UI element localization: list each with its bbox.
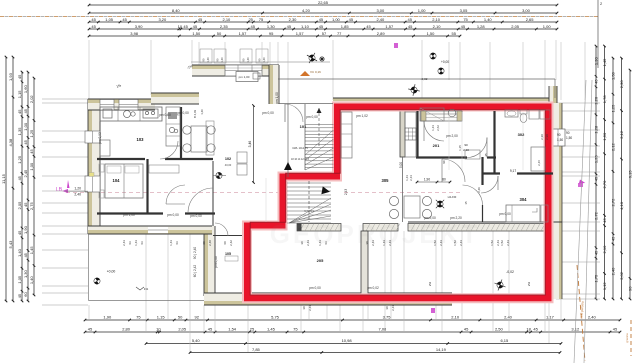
survey symbol 5 (compass room 305) [432,196,449,213]
svg-text:pm 0,93: pm 0,93 [98,132,102,144]
dimension line left 1 (11,15 overall) [5,57,7,301]
closet room 304 [541,205,548,222]
svg-text:pm 0,00: pm 0,00 [177,111,189,115]
svg-text:2,80: 2,80 [122,327,131,332]
svg-text:304: 304 [520,197,528,202]
svg-text:2,43: 2,43 [122,240,126,246]
svg-text:90 | 2,40: 90 | 2,40 [193,247,197,260]
svg-text:8,40: 8,40 [172,8,181,13]
svg-text:45: 45 [88,327,93,332]
svg-text:3,90: 3,90 [135,24,144,29]
svg-text:1,00: 1,00 [23,122,28,131]
svg-text:1,58: 1,58 [611,71,616,80]
svg-text:2,43: 2,43 [409,175,413,181]
interior wall room 302 west [493,111,495,173]
svg-text:1,60: 1,60 [23,85,28,94]
svg-text:CWL 10x1,75: CWL 10x1,75 [292,146,308,150]
svg-text:1,45: 1,45 [267,327,276,332]
svg-text:pm 0,00: pm 0,00 [167,213,179,217]
exterior wall left wing south [88,226,212,234]
interior wall bath 201 south [416,156,467,158]
svg-text:1,90: 1,90 [424,178,430,182]
svg-text:201: 201 [433,143,440,148]
interior wall corridor east [481,157,483,185]
svg-text:1,40: 1,40 [246,57,250,63]
svg-text:1,40: 1,40 [206,57,210,63]
svg-text:2,42: 2,42 [229,240,233,246]
svg-text:2%: 2% [428,282,432,287]
svg-text:1,85: 1,85 [341,24,350,29]
svg-text:40,00: 40,00 [225,163,232,167]
toilet bath 302 [520,110,527,114]
svg-text:45: 45 [461,24,466,29]
kitchen counter room 305 [405,112,416,157]
svg-text:pm 0,00: pm 0,00 [214,256,218,268]
window west wall lower [85,176,100,192]
svg-text:1,40: 1,40 [262,57,266,63]
svg-text:45: 45 [287,24,292,29]
svg-text:pm 0,00: pm 0,00 [424,216,436,220]
svg-text:45: 45 [349,17,354,22]
svg-text:LB: LB [56,187,63,193]
svg-text:1,43: 1,43 [382,240,386,246]
survey symbol 2 [429,52,438,61]
svg-text:-0,02: -0,02 [421,77,428,81]
svg-text:9 7 5 3 1: 9 7 5 3 1 [304,210,314,213]
svg-text:1,90: 1,90 [23,225,28,234]
svg-text:2,65: 2,65 [526,17,535,22]
svg-text:90: 90 [628,286,633,291]
svg-text:2,02: 2,02 [619,271,624,280]
svg-text:3,98: 3,98 [130,31,139,36]
svg-text:45: 45 [594,250,599,255]
svg-text:2,43: 2,43 [388,240,392,246]
svg-text:1,15: 1,15 [157,315,166,320]
mid wall between room 205 and terrace [361,231,368,294]
dashed section line middle B-B [66,192,285,194]
svg-text:1,17: 1,17 [546,315,555,320]
svg-text:1,52: 1,52 [490,240,494,246]
svg-text:2%: 2% [527,282,531,287]
dimension line top 2 [89,12,557,14]
dimension line right 5 [629,70,631,299]
svg-text:+0,00: +0,00 [441,60,449,64]
svg-text:1,05: 1,05 [17,275,22,284]
bathtub room 302 [531,147,545,171]
extension lines from building to top dimensions [88,40,90,100]
svg-text:302: 302 [518,132,525,137]
shaft boxes beside stair [237,152,247,163]
svg-text:1%: 1% [144,287,149,291]
staircase lower flight [287,182,331,184]
svg-text:10: 10 [178,24,183,29]
windows in north wall A [100,100,114,111]
survey symbol 6 (terrace) [492,277,507,292]
svg-text:1,52: 1,52 [453,240,457,246]
dimension line left 3 [21,72,23,301]
exterior wall south band [204,293,452,305]
svg-text:60 | 2,42: 60 | 2,42 [193,265,197,278]
svg-text:3,75: 3,75 [383,315,392,320]
door arc hall to corridor [188,188,213,213]
bed room 104 [105,164,143,198]
svg-text:45: 45 [533,327,538,332]
svg-text:22,65: 22,65 [318,0,329,5]
svg-text:1,57: 1,57 [385,24,394,29]
svg-text:2,62: 2,62 [436,125,440,131]
svg-text:45: 45 [17,175,22,180]
svg-text:2,10: 2,10 [451,315,460,320]
svg-text:2,40: 2,40 [74,193,81,197]
svg-text:2,05: 2,05 [511,24,520,29]
svg-text:104: 104 [113,178,121,183]
svg-text:3,05: 3,05 [460,8,469,13]
svg-text:50: 50 [217,31,222,36]
dimension line bottom 2 [85,331,620,333]
svg-text:B 2,49: B 2,49 [193,110,197,119]
svg-text:205: 205 [317,258,324,263]
svg-text:60: 60 [23,292,28,297]
exterior wall north segment C [192,65,279,76]
svg-text:1,50: 1,50 [602,132,607,141]
washbasin bath 201 [448,109,456,117]
interior dimension room 305 [417,181,450,183]
svg-text:1,25: 1,25 [594,155,599,164]
svg-text:1,45: 1,45 [29,246,34,255]
section marker bottom (magenta) [431,308,435,313]
svg-text:75: 75 [136,315,141,320]
storage shelf 105 [225,256,238,261]
svg-text:10,98: 10,98 [342,338,353,343]
svg-text:45: 45 [23,252,28,257]
washbasin bath 302 [505,110,518,117]
svg-text:5,75: 5,75 [271,315,280,320]
svg-text:25: 25 [248,17,253,22]
svg-text:1,43: 1,43 [134,240,138,246]
svg-text:45: 45 [208,327,213,332]
svg-text:1,40: 1,40 [17,248,22,257]
svg-text:-0,02: -0,02 [506,270,514,274]
svg-text:2,72: 2,72 [594,211,599,220]
svg-text:63: 63 [324,241,328,245]
svg-text:2,10: 2,10 [602,245,607,254]
svg-text:1,90: 1,90 [103,315,112,320]
window west wall upper [85,131,100,143]
svg-text:1,30: 1,30 [23,269,28,278]
svg-text:1,52: 1,52 [433,240,437,246]
svg-text:57: 57 [322,31,327,36]
svg-text:pm 0,00: pm 0,00 [309,286,321,290]
svg-text:2,43: 2,43 [391,305,395,311]
svg-text:1,00: 1,00 [418,8,427,13]
cupboard room 103 west wall [100,140,110,156]
svg-text:1,40: 1,40 [220,57,224,63]
svg-text:45: 45 [23,108,28,113]
dining chairs room 103 [183,126,191,134]
dashed orange line bottom right [577,265,585,361]
extension lines from building to left dimensions [42,98,88,100]
red apartment boundary polygon [247,107,549,299]
nightstand room 104 [99,164,104,172]
svg-text:60: 60 [223,241,227,245]
extension lines from building to bottom dimensions [88,305,90,320]
wall stub north-east [549,86,557,103]
svg-text:103: 103 [137,137,145,142]
svg-text:45: 45 [594,176,599,181]
svg-text:1,43: 1,43 [318,240,322,246]
svg-text:5,40: 5,40 [192,338,201,343]
svg-text:2,43: 2,43 [506,240,510,246]
svg-text:45: 45 [91,24,96,29]
svg-text:90: 90 [442,160,446,164]
level marker outside +0,00 [93,277,101,285]
svg-text:2,43: 2,43 [344,189,348,195]
svg-text:VC 0,16: VC 0,16 [310,70,321,74]
svg-text:1,00: 1,00 [29,162,34,171]
svg-text:1,10: 1,10 [301,24,310,29]
orange marker porch [300,71,310,76]
svg-text:pm 1,00: pm 1,00 [123,213,135,217]
svg-text:90: 90 [464,143,468,147]
window in north wall C [225,65,262,76]
svg-text:1,05: 1,05 [105,17,114,22]
exterior wall stair tower west [204,226,215,296]
svg-text:2,50: 2,50 [495,327,504,332]
interior wall room103 south [97,158,145,160]
dimension line left 2 [12,57,14,301]
svg-text:90: 90 [557,133,561,137]
svg-text:2,70: 2,70 [602,180,607,189]
extension lines from building to right dimensions [556,102,600,104]
svg-text:4,10: 4,10 [619,201,624,210]
door arc room 104 [166,185,185,204]
dimension line right 4 [621,58,623,299]
svg-text:1,57: 1,57 [296,31,305,36]
svg-text:6,15: 6,15 [500,338,509,343]
interior guide lines right wing [448,112,450,170]
svg-text:2,90: 2,90 [545,134,549,140]
svg-text:1,93: 1,93 [8,72,13,81]
dimension line right 3 [612,58,614,299]
exterior wall west [88,99,100,234]
svg-text:50: 50 [178,315,183,320]
svg-text:75: 75 [259,17,264,22]
exterior wall sliver east of red [553,103,562,299]
interior wall left wing corridor [97,212,163,214]
svg-text:7,08: 7,08 [378,327,387,332]
interior wall room104 east [146,159,148,213]
svg-text:2,43: 2,43 [308,305,312,311]
survey symbol 4 [407,83,421,97]
dimension line bottom 4 [190,352,560,354]
svg-text:1,50: 1,50 [192,31,201,36]
svg-text:+0,00: +0,00 [107,270,116,274]
svg-text:1,40: 1,40 [484,17,493,22]
svg-text:45: 45 [91,17,96,22]
svg-text:1,50: 1,50 [427,31,436,36]
canopy line above right wing [278,78,555,80]
survey symbol 1 [304,50,320,66]
interior wall room 302/304 south [482,172,500,174]
svg-text:pm 1,00: pm 1,00 [239,75,250,79]
svg-text:45: 45 [464,327,469,332]
wardrobe beside stair [341,112,352,158]
svg-text:granica: granica [625,333,629,343]
corridor south wall hatched segments [297,224,341,232]
section marker B left (magenta) [56,180,70,193]
svg-text:1,15: 1,15 [458,145,462,151]
svg-text:11,15: 11,15 [1,173,6,183]
svg-text:2,40: 2,40 [504,315,513,320]
svg-text:1,25: 1,25 [611,104,616,113]
niche marks room 304 [532,208,537,212]
svg-text:45: 45 [122,17,127,22]
svg-text:1,52: 1,52 [500,240,504,246]
svg-text:45: 45 [251,24,256,29]
svg-text:30: 30 [365,241,369,245]
door arc corridor lower [463,185,483,205]
svg-text:45: 45 [23,139,28,144]
svg-text:1,40: 1,40 [29,276,34,285]
dining chairs room 305 [389,196,398,205]
svg-text:1,28: 1,28 [594,125,599,134]
svg-text:45: 45 [17,293,22,298]
svg-text:2,40: 2,40 [208,240,212,246]
svg-text:1,25: 1,25 [17,155,22,164]
svg-text:pm 0,00: pm 0,00 [499,212,511,216]
dimension line right 1 [595,46,597,299]
svg-text:63: 63 [140,241,144,245]
svg-text:105: 105 [225,252,231,256]
svg-text:pm 0,00: pm 0,00 [159,113,171,117]
svg-text:5,00: 5,00 [399,162,403,168]
svg-text:1,43: 1,43 [431,125,435,131]
svg-text:2,46: 2,46 [537,160,541,166]
svg-text:2,30: 2,30 [289,17,298,22]
survey symbol 3 [437,67,446,76]
svg-text:45: 45 [611,236,616,241]
svg-text:1,45: 1,45 [602,58,607,67]
svg-text:45: 45 [319,17,324,22]
dimension line left 4 [27,72,29,301]
svg-text:7,85: 7,85 [252,347,261,352]
svg-text:9,15: 9,15 [628,170,633,179]
interior wall room103 east [180,107,182,159]
interior wall bath 201 west [416,111,418,157]
svg-text:45: 45 [319,24,324,29]
door arc shower 201 [424,121,444,141]
section marker top (magenta) [394,43,398,48]
svg-text:45: 45 [17,230,22,235]
svg-text:pm 2,20: pm 2,20 [450,216,462,220]
svg-text:pm 1,02: pm 1,02 [356,114,368,118]
exterior wall north segment A [88,99,155,110]
dining table room 103 [191,126,207,152]
stair walking line lower [308,181,310,222]
door arc room 103 [160,141,178,159]
door arc corridor to living [442,159,465,182]
wardrobe hall east wall [206,121,214,155]
svg-text:30: 30 [385,306,389,310]
exterior wall north segment B [151,93,199,104]
dimension line top 5 [89,35,460,37]
svg-text:pm 0,00: pm 0,00 [306,115,318,119]
svg-text:2,43: 2,43 [306,240,310,246]
hall interior dimension 3,46 [253,106,255,183]
exterior wall connector north [269,65,279,104]
svg-text:30: 30 [302,306,306,310]
dimension line right 2 [604,46,606,299]
corridor south wall line [408,221,562,223]
svg-text:1,15: 1,15 [17,90,22,99]
svg-text:2,10: 2,10 [433,24,442,29]
svg-text:45: 45 [183,24,188,29]
svg-text:1,28: 1,28 [477,24,486,29]
dimension line left 5 [33,78,35,295]
dimension line top 4 [89,28,557,30]
svg-text:2,72: 2,72 [611,198,616,207]
svg-text:1,54: 1,54 [228,327,237,332]
svg-text:1,75: 1,75 [594,274,599,283]
svg-text:1,20: 1,20 [74,187,81,191]
svg-text:1,40: 1,40 [200,109,204,115]
section marker B right (magenta) [578,180,586,187]
svg-text:1,00: 1,00 [543,24,552,29]
svg-text:45: 45 [366,24,371,29]
svg-text:1,57: 1,57 [239,31,248,36]
svg-text:2,43: 2,43 [371,240,375,246]
svg-text:2,45: 2,45 [23,169,28,178]
svg-text:1,30: 1,30 [267,24,276,29]
svg-text:2,40: 2,40 [376,17,385,22]
door arc storage 105 [215,223,228,236]
tall cabinet room 103 [166,107,180,146]
svg-text:45: 45 [613,327,618,332]
svg-text:1,78: 1,78 [602,95,607,104]
window niche in north wall of right wing [421,111,462,121]
svg-text:pm 0,00: pm 0,00 [262,111,274,115]
svg-text:pm 2,00: pm 2,00 [446,134,458,138]
forecourt edge lines [88,234,90,301]
svg-text:45: 45 [17,74,22,79]
interior wall left wing east boundary [212,161,214,226]
svg-text:75: 75 [293,327,298,332]
svg-text:9,17: 9,17 [510,169,516,173]
sink grid room 305 [405,128,416,140]
dining table room 305 [404,196,420,218]
svg-text:2,89: 2,89 [377,31,386,36]
window in east wall (bath 302) [551,129,565,146]
svg-text:1,00: 1,00 [332,17,341,22]
dimension line top 3 [89,21,557,23]
svg-text:1,25: 1,25 [29,129,34,138]
svg-text:pm 1,00: pm 1,00 [275,92,279,104]
svg-text:18: 18 [526,327,531,332]
svg-text:pm 0,00: pm 0,00 [190,214,202,218]
level marker corridor [215,172,223,180]
door jamb block corridor [297,224,302,232]
svg-text:2,43: 2,43 [439,240,443,246]
svg-text:2,30: 2,30 [540,134,544,140]
svg-text:2,40: 2,40 [588,315,597,320]
svg-text:15: 15 [464,201,468,205]
svg-text:63: 63 [128,241,132,245]
svg-text:63: 63 [175,241,179,245]
svg-text:3,46: 3,46 [248,141,252,148]
exterior wall sliver above red (right wing north) [333,98,556,104]
svg-text:2,10: 2,10 [463,148,469,152]
svg-text:45: 45 [408,24,413,29]
